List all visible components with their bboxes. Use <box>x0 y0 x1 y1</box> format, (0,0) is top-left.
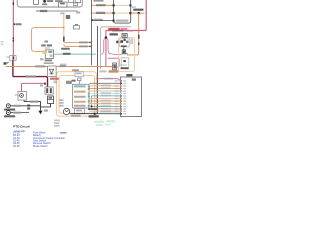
svg-text:S3-60: S3-60 <box>13 145 20 148</box>
svg-text:PTO Circuit: PTO Circuit <box>13 124 29 128</box>
svg-text:Brake Switch: Brake Switch <box>33 145 48 148</box>
